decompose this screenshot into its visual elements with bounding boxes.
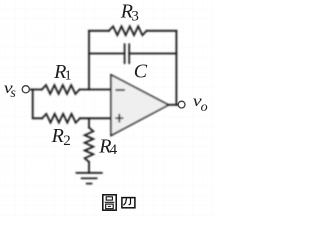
resistor R3	[109, 26, 147, 35]
wire: non-inverting node down to R4	[88, 118, 90, 127]
op-amp inverting pin label (minus)	[116, 89, 126, 91]
wire: capacitor rail right segment	[129, 53, 176, 55]
wire: op-amp output to terminal	[169, 104, 179, 106]
resistor R4	[85, 128, 94, 163]
wire: vs terminal to R1	[30, 89, 42, 91]
op-amp non-inverting pin label (plus)	[115, 114, 123, 123]
wire: R2 to op-amp non-inverting input	[80, 117, 111, 119]
svg-text:3: 3	[131, 8, 139, 24]
wire: feedback left vertical (R3/C to inverting node)	[88, 31, 90, 90]
capacitor C plates	[125, 44, 130, 63]
caption character "tu" (figure)	[103, 195, 116, 210]
svg-text:C: C	[134, 61, 148, 83]
wire: R4 to ground	[88, 162, 90, 173]
resistor R1	[42, 85, 80, 94]
svg-text:s: s	[10, 86, 16, 101]
terminal vs (open circle)	[22, 86, 29, 93]
wire: R1 to op-amp inverting input	[80, 89, 111, 91]
svg-text:1: 1	[65, 69, 72, 84]
ground	[76, 173, 103, 184]
svg-text:2: 2	[63, 133, 70, 149]
wire: vs node branch down to R2	[33, 90, 42, 119]
svg-text:R: R	[51, 125, 64, 147]
wire: feedback right vertical (R3/C to output node)	[175, 31, 177, 105]
wire: top feedback rail left segment	[89, 30, 109, 32]
op-amp	[111, 75, 169, 136]
terminal vo (open circle)	[178, 101, 185, 108]
wire: top feedback rail right segment	[147, 30, 177, 32]
wire: capacitor rail left segment	[89, 53, 125, 55]
caption character "si" (four)	[122, 198, 135, 208]
resistor R2	[42, 114, 80, 123]
svg-text:4: 4	[110, 142, 118, 158]
svg-text:o: o	[201, 100, 208, 115]
